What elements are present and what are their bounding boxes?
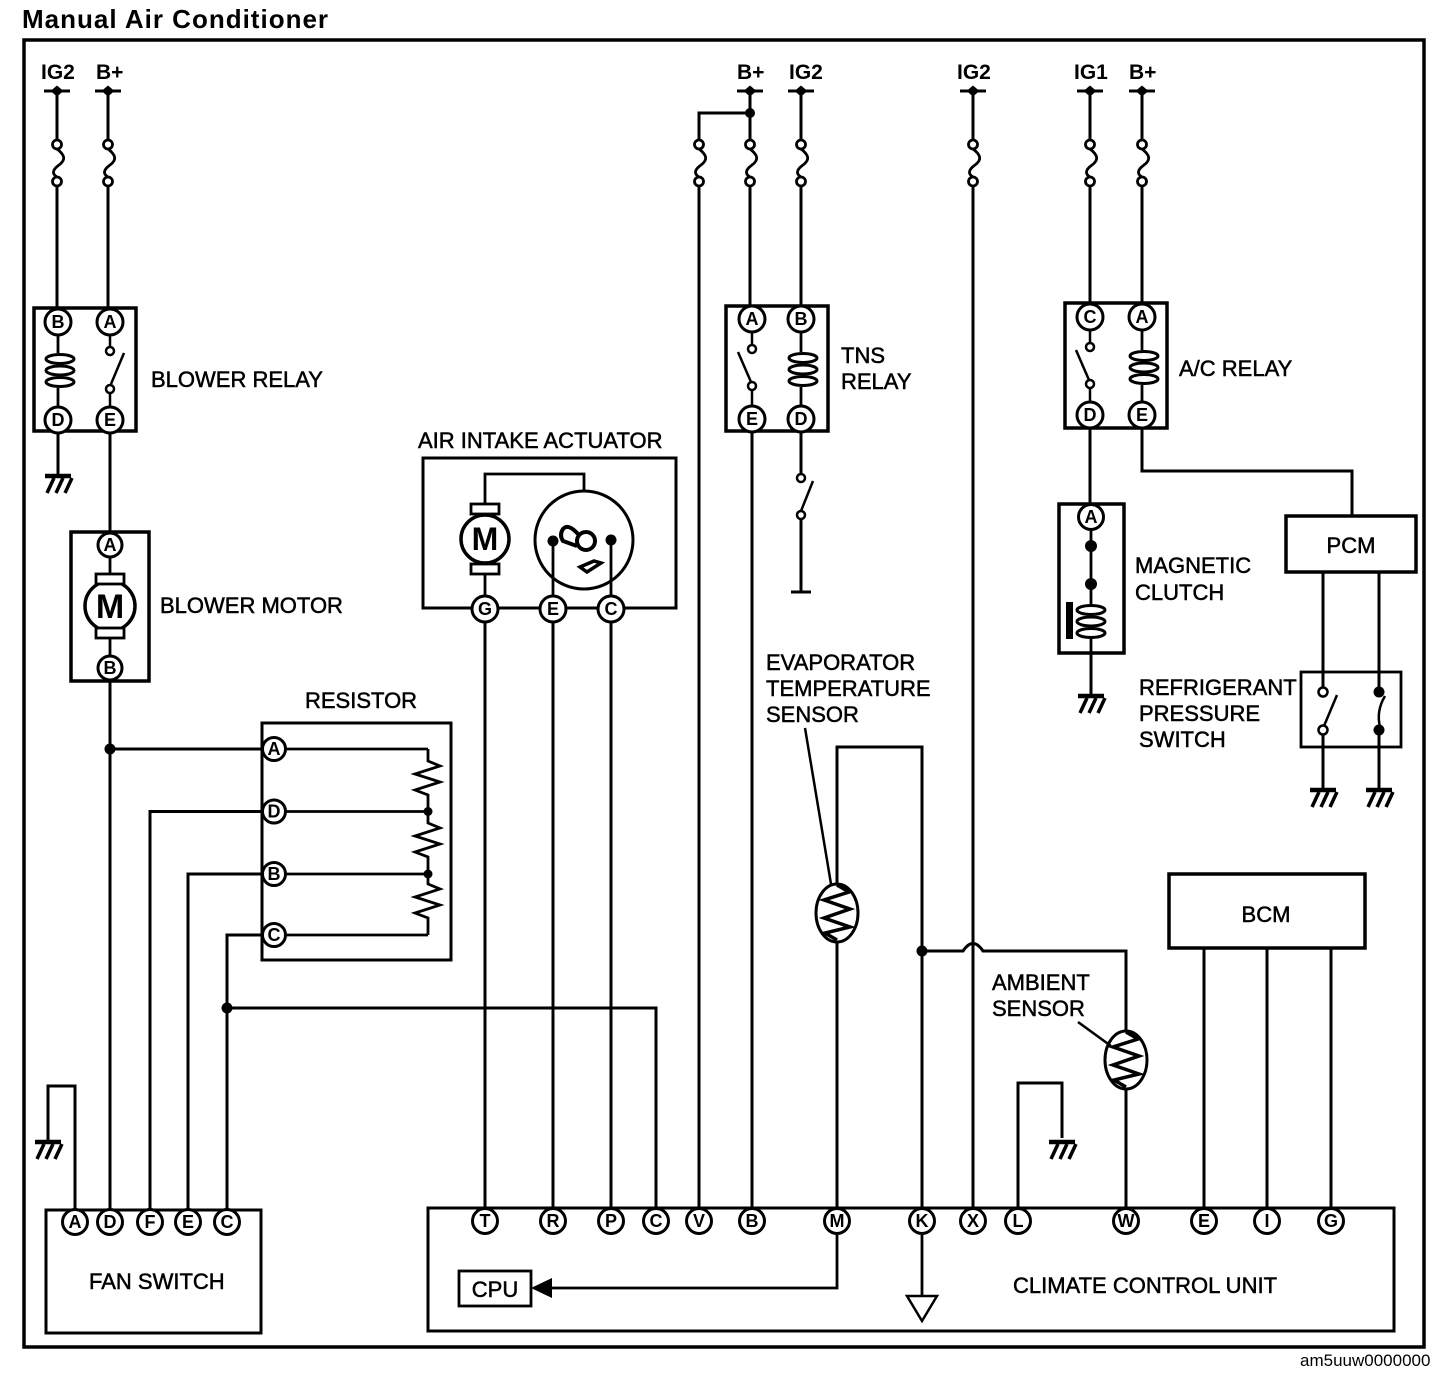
svg-text:T: T: [480, 1211, 491, 1231]
wire IG2 left down to blower relay pin B: [56, 91, 59, 310]
switch below TNS relay: [791, 474, 813, 592]
resistor pin B: [263, 863, 286, 886]
svg-text:L: L: [1013, 1211, 1024, 1231]
svg-text:am5uuw0000000: am5uuw0000000: [1300, 1351, 1430, 1370]
svg-text:B: B: [104, 658, 117, 678]
resistor pin A: [263, 738, 286, 761]
magnetic clutch pin A: [1079, 505, 1104, 530]
climate control unit pin V: [687, 1209, 712, 1234]
svg-text:A: A: [746, 309, 759, 329]
svg-text:C: C: [1084, 307, 1097, 327]
A/C relay pin D: [1077, 402, 1103, 428]
node junction B+ branch: [745, 108, 755, 118]
connector on V branch wire: [695, 140, 706, 186]
TNS relay pin E: [739, 406, 765, 432]
wire B+ right down to A/C relay A: [1141, 91, 1144, 304]
connector on IG2 left wire: [53, 140, 64, 186]
BCM: [1169, 874, 1365, 948]
label TNS RELAY: [841, 343, 912, 394]
svg-text:SENSOR: SENSOR: [992, 996, 1085, 1021]
svg-text:M: M: [96, 588, 124, 626]
wire air intake actuator E to climate control unit R: [552, 622, 555, 1210]
svg-text:B+: B+: [96, 61, 123, 84]
fan switch pin E: [176, 1210, 201, 1235]
svg-text:SWITCH: SWITCH: [1139, 727, 1226, 752]
svg-text:SENSOR: SENSOR: [766, 702, 859, 727]
svg-text:PRESSURE: PRESSURE: [1139, 701, 1260, 726]
blower motor pin A: [98, 533, 122, 557]
wire IG1 down to A/C relay C: [1089, 91, 1092, 304]
wire BCM to climate control unit E: [1203, 948, 1206, 1210]
ambient sensor: [1078, 1022, 1147, 1089]
climate control unit: [428, 1208, 1394, 1331]
svg-text:A: A: [1085, 507, 1098, 527]
svg-text:IG2: IG2: [789, 61, 823, 84]
wire M to CPU with arrow: [531, 1234, 837, 1298]
svg-text:V: V: [693, 1211, 705, 1231]
connector on IG2 middle wire: [797, 140, 808, 186]
A/C relay pin E: [1129, 402, 1155, 428]
svg-text:C: C: [268, 925, 281, 945]
connector on IG2 right wire: [969, 140, 980, 186]
TNS relay pin A: [739, 306, 765, 332]
power terminal IG2 right: [957, 61, 991, 97]
svg-text:BLOWER MOTOR: BLOWER MOTOR: [160, 593, 343, 618]
wire evaporator sensor to climate control unit M: [836, 941, 839, 1210]
svg-text:EVAPORATOR: EVAPORATOR: [766, 650, 915, 675]
blower motor: [71, 532, 149, 681]
wire A/C relay D to magnetic clutch A: [1089, 428, 1092, 505]
wire IG2 middle down to TNS relay B: [800, 91, 803, 307]
ground below magnetic clutch: [1078, 696, 1105, 713]
power terminal B+ right: [1129, 61, 1156, 97]
wire PCM to pressure switch right: [1378, 572, 1381, 688]
svg-text:AIR INTAKE ACTUATOR: AIR INTAKE ACTUATOR: [418, 428, 662, 453]
svg-text:D: D: [795, 409, 808, 429]
fan switch pin A: [63, 1210, 88, 1235]
A/C relay pin C: [1077, 304, 1103, 330]
CPU box: [459, 1271, 531, 1306]
wire resistor A to blower motor wire junction: [110, 748, 285, 751]
climate control unit pin G: [1319, 1209, 1344, 1234]
wire BCM to climate control unit I: [1266, 948, 1269, 1210]
svg-text:MAGNETIC: MAGNETIC: [1135, 553, 1251, 578]
node junction blower motor / resistor A: [105, 744, 116, 755]
wire junction to climate control unit K: [921, 951, 924, 1210]
svg-text:K: K: [916, 1211, 929, 1231]
A/C relay pin A: [1129, 304, 1155, 330]
blower relay pin E: [97, 407, 123, 433]
refrigerant pressure switch: [1301, 672, 1401, 747]
svg-text:D: D: [1084, 405, 1097, 425]
svg-text:C: C: [221, 1212, 234, 1232]
svg-text:E: E: [547, 599, 559, 619]
air intake actuator pin C: [598, 596, 624, 622]
wire blower motor B to fan switch D: [109, 680, 112, 1210]
blower relay pin D: [45, 407, 71, 433]
label AMBIENT SENSOR: [992, 970, 1090, 1021]
svg-text:RELAY: RELAY: [841, 369, 912, 394]
magnetic clutch: [1059, 504, 1124, 653]
wire fan switch A to ground: [48, 1086, 75, 1210]
ground near L terminal: [1049, 1142, 1076, 1159]
svg-text:A: A: [69, 1212, 82, 1232]
wire B+ branch to climate control unit V: [699, 113, 750, 1210]
wire blower relay D to ground: [57, 431, 60, 475]
ground below pressure switch left: [1310, 790, 1337, 807]
connector on B+ middle wire: [746, 140, 757, 186]
label REFRIGERANT PRESSURE SWITCH: [1139, 675, 1297, 752]
air intake actuator pin G: [472, 596, 498, 622]
svg-text:X: X: [967, 1211, 979, 1231]
svg-text:CLUTCH: CLUTCH: [1135, 580, 1224, 605]
svg-text:R: R: [547, 1211, 560, 1231]
wire IG2 right down to climate control unit X: [972, 91, 975, 1210]
wire PCM to pressure switch left: [1322, 572, 1325, 688]
svg-text:IG2: IG2: [41, 61, 75, 84]
climate control unit pin C: [644, 1209, 669, 1234]
power terminal B+ left: [95, 61, 123, 97]
wire resistor B to fan switch E: [188, 874, 285, 1210]
svg-text:TEMPERATURE: TEMPERATURE: [766, 676, 931, 701]
svg-text:REFRIGERANT: REFRIGERANT: [1139, 675, 1297, 700]
fan switch: [46, 1210, 261, 1333]
svg-text:IG1: IG1: [1074, 61, 1108, 84]
svg-text:C: C: [650, 1211, 663, 1231]
climate control unit pin K: [910, 1209, 935, 1234]
connector on B+ left wire: [104, 140, 115, 186]
svg-text:I: I: [1264, 1211, 1269, 1231]
svg-text:B+: B+: [737, 61, 764, 84]
climate control unit pin X: [961, 1209, 986, 1234]
power terminal IG2 middle: [788, 61, 823, 97]
resistor pin C: [263, 924, 286, 947]
climate control unit pin E: [1192, 1209, 1217, 1234]
label EVAPORATOR TEMPERATURE SENSOR: [766, 650, 931, 727]
wire pressure switch right to ground: [1378, 735, 1381, 788]
wire B+ left down to blower relay pin A: [107, 91, 110, 310]
power terminal IG2 left: [41, 61, 75, 97]
svg-text:FAN SWITCH: FAN SWITCH: [89, 1269, 225, 1294]
svg-text:IG2: IG2: [957, 61, 991, 84]
climate control unit pin P: [599, 1209, 624, 1234]
wire B+ middle down to TNS relay A: [749, 91, 752, 307]
ground below pressure switch right: [1366, 790, 1393, 807]
ground near fan switch: [35, 1142, 62, 1159]
climate control unit pin T: [473, 1209, 498, 1234]
label MAGNETIC CLUTCH: [1135, 553, 1251, 605]
TNS relay pin D: [788, 406, 814, 432]
svg-text:RESISTOR: RESISTOR: [305, 688, 417, 713]
svg-text:M: M: [472, 521, 499, 557]
blower relay pin B: [45, 309, 71, 335]
svg-text:A/C RELAY: A/C RELAY: [1179, 356, 1293, 381]
wire resistor C to fan switch C: [227, 935, 285, 1210]
svg-text:F: F: [145, 1212, 156, 1232]
svg-text:B: B: [268, 864, 281, 884]
connector on B+ right wire: [1138, 140, 1149, 186]
svg-text:BCM: BCM: [1242, 902, 1291, 927]
resistor pin D: [263, 800, 286, 823]
evaporator temperature sensor: [805, 728, 858, 942]
wire K to internal ground triangle: [907, 1234, 937, 1321]
wire climate control unit L to ground: [1018, 1083, 1062, 1210]
svg-text:A: A: [104, 535, 117, 555]
svg-text:E: E: [1136, 405, 1148, 425]
wire ambient sensor to climate control unit W: [1125, 1088, 1128, 1210]
wire evaporator sensor top loop: [837, 747, 922, 951]
ground below blower relay: [45, 476, 72, 493]
svg-text:W: W: [1118, 1211, 1135, 1231]
climate control unit pin R: [541, 1209, 566, 1234]
node junction fan switch C branch: [222, 1003, 233, 1014]
climate control unit pin I: [1255, 1209, 1280, 1234]
blower relay pin A: [97, 309, 123, 335]
air intake actuator pin E: [540, 596, 566, 622]
power terminal B+ middle: [737, 61, 764, 97]
node junction evaporator circuit / K: [917, 946, 928, 957]
fan switch pin F: [138, 1210, 163, 1235]
wire magnetic clutch to ground: [1090, 653, 1093, 694]
svg-text:B+: B+: [1129, 61, 1156, 84]
wire A/C relay E to PCM: [1142, 428, 1352, 516]
svg-text:E: E: [1198, 1211, 1210, 1231]
wire blower relay E to blower motor A: [109, 431, 112, 534]
wire BCM to climate control unit G: [1330, 948, 1333, 1210]
power terminal IG1: [1074, 61, 1108, 97]
wire TNS relay E to climate control unit B: [751, 431, 754, 1210]
svg-text:E: E: [104, 410, 116, 430]
svg-text:B: B: [52, 312, 65, 332]
svg-text:E: E: [182, 1212, 194, 1232]
resistor: [262, 723, 451, 960]
svg-text:C: C: [605, 599, 618, 619]
svg-text:G: G: [1324, 1211, 1338, 1231]
TNS relay: [726, 306, 828, 431]
A/C relay: [1065, 303, 1167, 428]
blower motor pin B: [98, 656, 122, 680]
svg-text:P: P: [605, 1211, 617, 1231]
svg-text:BLOWER RELAY: BLOWER RELAY: [151, 367, 323, 392]
svg-text:E: E: [746, 409, 758, 429]
svg-text:PCM: PCM: [1327, 533, 1376, 558]
PCM: [1286, 516, 1416, 572]
connector on IG1 wire: [1086, 140, 1097, 186]
svg-text:CPU: CPU: [472, 1277, 518, 1302]
climate control unit pin M: [825, 1209, 850, 1234]
blower relay: [34, 308, 136, 431]
svg-text:Manual Air Conditioner: Manual Air Conditioner: [22, 4, 329, 34]
climate control unit pin L: [1006, 1209, 1031, 1234]
svg-text:B: B: [746, 1211, 759, 1231]
svg-text:M: M: [830, 1211, 845, 1231]
svg-text:AMBIENT: AMBIENT: [992, 970, 1090, 995]
svg-text:G: G: [478, 599, 492, 619]
svg-text:D: D: [268, 802, 281, 822]
climate control unit pin W: [1114, 1209, 1139, 1234]
wire junction to climate control unit pin C: [227, 1008, 656, 1210]
wire air intake actuator G to climate control unit T: [484, 622, 487, 1210]
wire TNS relay D to external switch: [800, 431, 803, 474]
wire junction to ambient sensor with hop over X wire: [922, 944, 1126, 1033]
TNS relay pin B: [788, 306, 814, 332]
svg-text:A: A: [268, 739, 281, 759]
wire air intake actuator C to climate control unit P: [610, 622, 613, 1210]
svg-text:A: A: [1136, 307, 1149, 327]
svg-text:B: B: [795, 309, 808, 329]
svg-text:D: D: [52, 410, 65, 430]
fan switch pin D: [98, 1210, 123, 1235]
climate control unit pin B: [740, 1209, 765, 1234]
svg-text:A: A: [104, 312, 117, 332]
svg-text:TNS: TNS: [841, 343, 885, 368]
svg-text:D: D: [104, 1212, 117, 1232]
fan switch pin C: [215, 1210, 240, 1235]
svg-text:CLIMATE CONTROL UNIT: CLIMATE CONTROL UNIT: [1013, 1273, 1277, 1298]
air intake actuator: [423, 458, 676, 608]
wire pressure switch left to ground: [1322, 735, 1325, 788]
wire resistor D to fan switch F: [150, 812, 285, 1211]
